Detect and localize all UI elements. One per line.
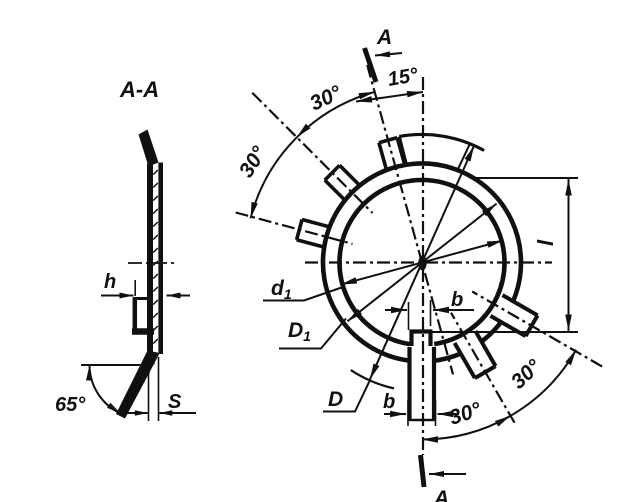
- node section strip hatch: [153, 170, 158, 175]
- dimension arc30 arrow at -15.5: [358, 92, 374, 99]
- dimension 15 arrow right: [407, 91, 423, 97]
- node section bottom tail: [116, 351, 160, 419]
- svg-text:65°: 65°: [55, 394, 86, 416]
- node tab T4 (-75 deg): [297, 240, 324, 247]
- dimension arc30 arrow at -45: [297, 124, 311, 138]
- node section mark A top arrow: [375, 53, 402, 56]
- dimension l ext top: [470, 177, 578, 179]
- node bottom tab T7: [407, 347, 411, 421]
- label D leader: [323, 379, 371, 412]
- wire section line A trace: [367, 65, 453, 374]
- node section mark A bottom arrow: [429, 473, 466, 475]
- node section strip right line: [158, 163, 163, 355]
- wire tab axis -75: [236, 213, 353, 244]
- wire tab axis 150: [451, 313, 515, 423]
- dimension S line left: [124, 412, 148, 414]
- dimension l line: [568, 179, 570, 331]
- node tab T1 outer arc: [399, 134, 484, 150]
- dimension h line left: [101, 295, 134, 297]
- dimension D1 arrow lower: [347, 309, 362, 322]
- svg-text:b: b: [451, 289, 463, 311]
- svg-text:S: S: [168, 391, 182, 413]
- dimension l ext bottom: [412, 331, 578, 333]
- svg-text:b: b: [383, 391, 395, 413]
- dimension d1 arrow left: [341, 277, 357, 284]
- dimension b1 arrow left: [391, 307, 407, 313]
- dimension b2 line left: [384, 413, 406, 415]
- svg-text:A: A: [376, 26, 392, 49]
- dimension 65 ref line: [81, 364, 147, 366]
- dimension b2 arrow right: [438, 411, 454, 417]
- wire section centerline tick: [128, 262, 177, 264]
- dimension b1 line left: [385, 309, 407, 311]
- node tab T6 (150 deg): [475, 331, 495, 366]
- dimension D arrow lower: [370, 364, 380, 380]
- dimension S line right: [159, 412, 196, 414]
- dimension D1 line: [347, 204, 496, 322]
- node section step bottom: [132, 328, 154, 335]
- dimension arc30 arrow at -75: [251, 202, 258, 218]
- node outer circle seg3: [435, 354, 460, 361]
- svg-text:A-A: A-A: [119, 77, 159, 102]
- node tab T5 (120 deg): [503, 295, 538, 315]
- node outer circle: [323, 163, 521, 360]
- dimension b2 arrow left: [390, 411, 406, 417]
- dimension arc30b arrow at 120: [565, 350, 576, 366]
- label D1 leader: [279, 319, 346, 349]
- node D circle phantom arc: [351, 370, 394, 388]
- node inner circle: [340, 180, 505, 344]
- dimension arc30b arrow at 180: [422, 436, 438, 443]
- node section step left: [133, 298, 138, 334]
- dimension 15 line: [356, 92, 423, 102]
- node inner tongue tab: [409, 332, 413, 347]
- dimension 65 arrow bottom: [107, 403, 121, 414]
- wire tab axis 120: [472, 292, 602, 367]
- dimension h line right: [167, 295, 191, 297]
- dimension S arrow left: [135, 410, 148, 416]
- dimension arc 30 bottom: [422, 350, 576, 440]
- dimension b1 arrow right: [433, 307, 449, 313]
- dimension d1 line: [341, 241, 503, 285]
- dimension D arrow upper: [465, 146, 475, 162]
- node center blob: [418, 256, 426, 271]
- dimension D line: [370, 146, 474, 380]
- dimension 65 arc: [90, 365, 121, 414]
- label d1 leader: [263, 287, 345, 301]
- node tab T1 right edge: [458, 144, 470, 170]
- dimension b1 line right: [433, 309, 474, 311]
- node section step top: [133, 297, 148, 300]
- dimension S arrow right: [159, 410, 172, 416]
- node section mark A top bar: [365, 48, 377, 82]
- svg-text:D: D: [328, 388, 343, 411]
- dimension b2 line right: [438, 413, 460, 415]
- node tab T3 (-45 deg): [325, 180, 345, 200]
- node section mark A bottom bar: [421, 455, 425, 487]
- svg-text:l: l: [533, 239, 558, 246]
- dimension d1 arrow right: [487, 241, 503, 248]
- wire horizontal centerline: [305, 261, 552, 263]
- dimension arc 30 top: [251, 92, 375, 218]
- dimension 65 arrow top: [86, 366, 92, 381]
- node tab T1 left edge: [399, 137, 406, 165]
- node tab T2 (-15.5 deg, section): [379, 143, 387, 170]
- dimension l arrow bottom: [565, 315, 572, 331]
- node outer circle seg2: [482, 323, 500, 341]
- dimension b2 ext: [407, 400, 409, 426]
- svg-text:A: A: [433, 487, 449, 502]
- dimension S ext: [148, 355, 150, 421]
- dimension h ext: [134, 280, 136, 296]
- dimension D1 arrow upper: [482, 204, 497, 217]
- dimension b1 ext: [408, 302, 410, 330]
- wire vertical centerline: [422, 77, 424, 455]
- wire tab axis -45: [252, 93, 372, 213]
- node section top bent tab: [139, 130, 159, 167]
- node section strip left line: [147, 164, 153, 354]
- svg-text:h: h: [104, 271, 116, 293]
- dimension arc30b arrow at 150: [495, 416, 511, 427]
- dimension l arrow top: [565, 180, 572, 196]
- dimension h arrow left: [120, 293, 134, 299]
- dimension h arrow right: [167, 293, 181, 299]
- dimension 15 arrow left: [356, 96, 372, 102]
